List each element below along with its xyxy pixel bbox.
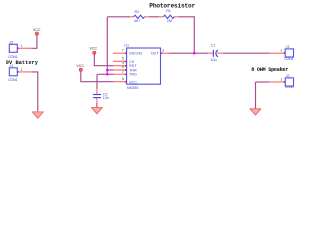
- svg-text:R1: R1: [166, 9, 171, 13]
- svg-text:NE555: NE555: [127, 86, 138, 90]
- svg-text:VCC: VCC: [33, 28, 41, 32]
- svg-text:VCC: VCC: [76, 64, 84, 68]
- svg-text:8 OHM Speaker: 8 OHM Speaker: [251, 67, 288, 73]
- svg-text:CON1: CON1: [284, 57, 293, 61]
- svg-text:8: 8: [122, 77, 124, 81]
- svg-text:9V Battery: 9V Battery: [6, 60, 39, 66]
- svg-text:10n: 10n: [103, 96, 109, 100]
- svg-text:4K7: 4K7: [134, 19, 141, 23]
- svg-text:10u: 10u: [210, 58, 216, 62]
- svg-text:VCC: VCC: [90, 47, 98, 51]
- svg-text:CON1: CON1: [8, 55, 17, 59]
- svg-text:C1: C1: [211, 44, 216, 48]
- svg-text:J1: J1: [286, 45, 290, 49]
- svg-text:DSCHG: DSCHG: [129, 52, 142, 56]
- svg-text:VCC: VCC: [129, 80, 137, 84]
- svg-text:1: 1: [21, 44, 23, 48]
- svg-text:R2: R2: [135, 10, 140, 14]
- svg-text:3: 3: [162, 48, 164, 52]
- svg-text:1: 1: [280, 49, 282, 53]
- svg-text:1: 1: [280, 78, 282, 82]
- svg-text:1: 1: [21, 68, 23, 72]
- svg-text:CON1: CON1: [8, 78, 17, 82]
- svg-text:U1: U1: [124, 44, 129, 48]
- svg-text:2M: 2M: [167, 19, 172, 23]
- svg-text:7: 7: [122, 48, 124, 52]
- svg-text:J3: J3: [9, 40, 13, 44]
- svg-text:Photoresistor: Photoresistor: [149, 3, 195, 10]
- svg-text:CON1: CON1: [285, 85, 294, 89]
- svg-text:J2: J2: [286, 74, 290, 78]
- svg-text:TRG: TRG: [129, 73, 137, 77]
- svg-text:OUT: OUT: [151, 52, 160, 56]
- svg-text:2: 2: [122, 69, 124, 73]
